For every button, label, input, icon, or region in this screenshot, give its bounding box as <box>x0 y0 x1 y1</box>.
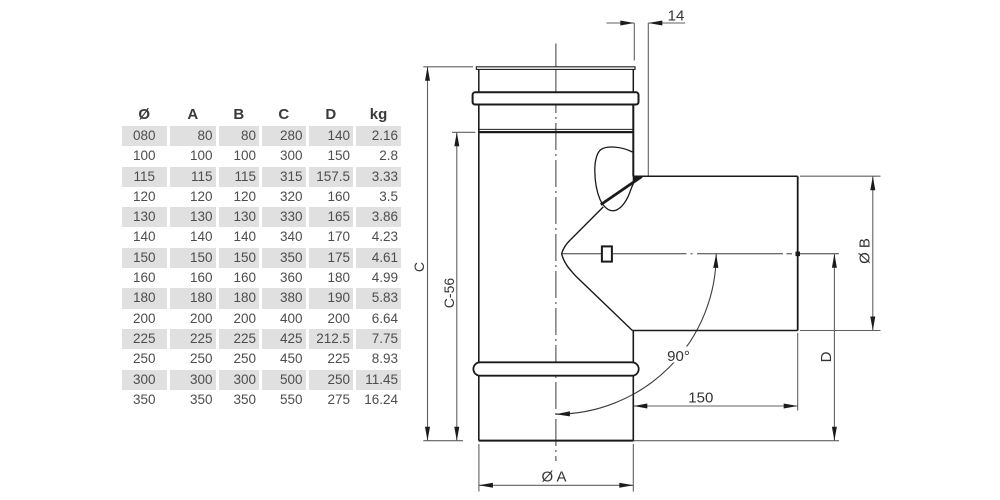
dimension table <box>119 103 405 410</box>
dimension 14 extension lines <box>633 23 635 61</box>
horizontal centerline <box>562 253 839 255</box>
dimension OA extension lines <box>479 444 633 492</box>
dimension C arrows <box>425 67 430 441</box>
dimension 150 arrows <box>633 404 797 409</box>
main pipe right wall upper <box>632 105 634 177</box>
clamp band <box>473 92 639 104</box>
dimension D line <box>833 254 835 441</box>
dimension OA arrows <box>479 483 633 488</box>
node junction dot <box>796 252 801 257</box>
measuring tab rectangle <box>602 246 612 261</box>
bottom extension line <box>423 440 839 442</box>
socket depth lines <box>479 128 634 130</box>
dimension C-56 extension line <box>452 131 475 133</box>
svg-text:C-56: C-56 <box>441 278 457 309</box>
cone upper edge <box>562 207 604 254</box>
branch bottom edge <box>632 330 798 332</box>
vertical centerline <box>555 44 557 114</box>
dimension OB extension lines <box>800 176 881 330</box>
main pipe right wall lower <box>632 331 634 441</box>
svg-text:150: 150 <box>688 390 713 407</box>
label 90 deg <box>665 347 693 363</box>
dimension 14 arrows <box>620 21 662 26</box>
svg-text:D: D <box>818 351 835 362</box>
main pipe left wall <box>478 105 480 441</box>
dimension OB arrows <box>870 176 875 330</box>
svg-text:Ø A: Ø A <box>541 469 566 486</box>
svg-text:Ø B: Ø B <box>857 238 874 264</box>
collar ear <box>595 147 637 211</box>
dimension C extension line <box>423 66 473 68</box>
dimension 14 line <box>607 22 686 24</box>
dimension C-56 arrows <box>454 132 459 440</box>
cone cut thick edge <box>601 177 642 205</box>
branch top edge <box>633 175 798 177</box>
angle arc 90 <box>556 254 716 414</box>
dimension D arrows <box>832 254 837 441</box>
lower bead ring <box>473 362 638 375</box>
dimension OB line <box>872 176 874 330</box>
pipe bottom edge <box>479 440 634 442</box>
dimension C line <box>427 67 429 441</box>
angle arc arrows <box>556 254 719 417</box>
dimension 150 line <box>633 405 797 407</box>
dimension OA line <box>479 484 633 486</box>
dimension C-56 line <box>456 132 458 440</box>
cone lower edge <box>562 254 633 331</box>
svg-text:C: C <box>411 262 427 272</box>
svg-text:90°: 90° <box>667 348 690 365</box>
branch right edge <box>797 176 799 330</box>
dimension 150 extension line right <box>797 333 799 411</box>
socket walls <box>479 69 634 92</box>
socket top cap <box>476 67 635 70</box>
svg-text:14: 14 <box>668 8 685 25</box>
junction wedge <box>633 176 644 181</box>
